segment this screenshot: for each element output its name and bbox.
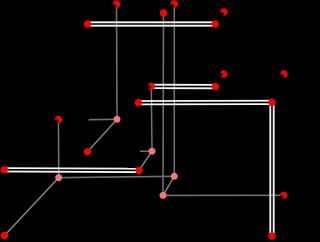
node P2 [149, 148, 156, 155]
wire horizontal from node P5 to node P3 [59, 176, 175, 177]
wire stub left of node P2 [140, 150, 152, 152]
wire diagonal from node R17 to node P5 [5, 178, 59, 236]
node R11 [135, 99, 142, 106]
node R5 [212, 20, 219, 27]
node R6 [220, 8, 227, 15]
double edge W2 between node R7 and node R8 [151, 85, 215, 89]
wire diagonal from node R15 to node P2 [139, 151, 152, 170]
node R16 [84, 148, 91, 155]
wire vertical from node R3 to node P4 [162, 13, 165, 195]
node R8 [212, 83, 219, 90]
node R15 [135, 167, 142, 174]
node R3 [160, 9, 167, 16]
wire diagonal from node P4 to node P3 [163, 176, 174, 195]
node P1 [114, 116, 121, 123]
node R13 [55, 116, 62, 123]
double edge W5 vertical between node R12 and node R18 [270, 102, 273, 236]
node R4 [171, 0, 178, 7]
node R18 [268, 232, 275, 239]
node R2 [84, 20, 91, 27]
wire vertical from node R7 to node P2 [150, 86, 153, 151]
node R12 [268, 99, 275, 106]
double edge W1 between node R2 and node R5 [88, 22, 216, 25]
node P5 [55, 174, 62, 181]
wire vertical from node R13 to node P5 [58, 120, 60, 178]
wire diagonal from node R16 to node P1 [88, 119, 118, 152]
node R17 [1, 232, 8, 239]
node R1 [113, 0, 120, 7]
double edge W3 between node R11 and node R12 [138, 101, 272, 105]
node R14 [1, 166, 8, 173]
wire horizontal from node P4 to node R19 [163, 194, 284, 196]
node R19 [280, 192, 287, 199]
wire stub left of node P1 [89, 118, 117, 120]
node R10 [280, 70, 287, 77]
wire vertical from node R1 to node P1 [116, 4, 119, 119]
double edge W4 between node R14 and node R15 [4, 168, 139, 172]
node P4 [160, 192, 167, 199]
node R9 [220, 70, 228, 77]
node R7 [147, 83, 155, 90]
wire vertical from node R4 to node P3 [173, 4, 175, 176]
node P3 [171, 173, 178, 180]
